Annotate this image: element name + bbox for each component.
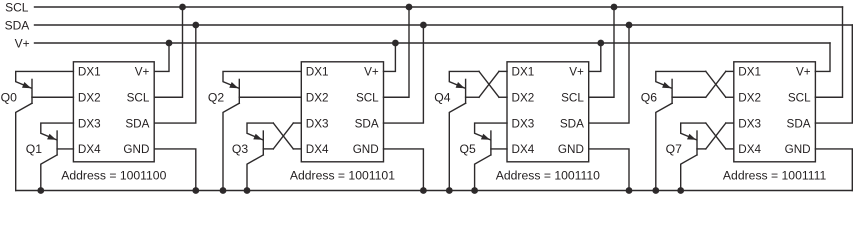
svg-text:DX1: DX1 [738, 66, 761, 79]
IC U3 [507, 62, 589, 162]
svg-text:DX1: DX1 [78, 66, 101, 79]
svg-text:Address = 1001101: Address = 1001101 [290, 169, 395, 183]
svg-text:Q5: Q5 [460, 142, 476, 156]
svg-text:SDA: SDA [355, 117, 379, 130]
IC U4 [734, 62, 816, 162]
wire SDA pin U1 [154, 25, 196, 123]
transistor Q0 [16, 71, 74, 190]
svg-text:DX4: DX4 [78, 143, 101, 156]
wire V+ bus rail [35, 42, 831, 44]
svg-text:SCL: SCL [788, 91, 811, 104]
svg-text:SCL: SCL [356, 91, 379, 104]
svg-text:DX2: DX2 [306, 91, 329, 104]
svg-text:GND: GND [353, 143, 379, 156]
svg-text:V+: V+ [135, 66, 150, 79]
svg-text:SDA: SDA [560, 117, 584, 130]
wire SCL pin U4 [815, 7, 842, 97]
svg-text:GND: GND [785, 143, 811, 156]
wire GND pin U4 [815, 149, 852, 191]
junction V+ U2 [392, 40, 399, 47]
svg-text:SDA: SDA [787, 117, 811, 130]
junction GND U2 [420, 187, 427, 194]
junction V+ U3 [597, 40, 604, 47]
svg-text:SDA: SDA [125, 117, 149, 130]
svg-text:DX4: DX4 [512, 143, 535, 156]
svg-text:DX4: DX4 [738, 143, 761, 156]
wire SDA pin U4 [815, 25, 852, 123]
junction GND U1 [192, 187, 199, 194]
junction SCL U2 [406, 4, 413, 11]
svg-text:Q0: Q0 [1, 91, 17, 105]
junction collector Q7 [677, 187, 684, 194]
svg-text:GND: GND [123, 143, 149, 156]
svg-text:DX2: DX2 [78, 91, 101, 104]
svg-text:V+: V+ [569, 66, 584, 79]
wire GND pin U3 [589, 149, 629, 191]
crossed wires at Q7 [706, 123, 734, 149]
wire SDA pin U3 [589, 25, 629, 123]
junction SDA U1 [192, 22, 199, 29]
wire V+ pin U1 [154, 43, 169, 71]
wire ground rail [16, 190, 853, 192]
svg-text:Q3: Q3 [232, 142, 248, 156]
wire SCL pin U1 [154, 7, 182, 97]
wire GND pin U1 [154, 149, 196, 191]
junction SDA U3 [626, 22, 633, 29]
svg-text:V+: V+ [796, 66, 811, 79]
junction collector Q2 [220, 187, 227, 194]
transistor Q3 [247, 123, 273, 190]
svg-text:Address = 1001110: Address = 1001110 [496, 169, 600, 183]
IC U1 [73, 62, 154, 162]
wire SCL bus rail [35, 6, 843, 8]
wire V+ pin U3 [589, 43, 601, 71]
svg-text:SCL: SCL [561, 91, 584, 104]
svg-text:Q1: Q1 [26, 142, 42, 156]
transistor Q5 [475, 123, 507, 190]
wire V+ pin U4 [815, 43, 830, 71]
svg-text:SCL: SCL [5, 0, 29, 14]
svg-text:DX2: DX2 [738, 91, 761, 104]
crossed wires at Q3 [273, 123, 301, 149]
svg-text:DX2: DX2 [512, 91, 535, 104]
svg-text:DX3: DX3 [738, 117, 761, 130]
svg-text:GND: GND [558, 143, 584, 156]
junction collector Q1 [37, 187, 44, 194]
svg-text:SCL: SCL [127, 91, 150, 104]
transistor Q4 [449, 71, 479, 190]
svg-text:DX3: DX3 [306, 117, 329, 130]
svg-text:Q4: Q4 [434, 91, 450, 105]
svg-text:DX3: DX3 [512, 117, 535, 130]
junction collector Q4 [446, 187, 453, 194]
svg-text:Q7: Q7 [666, 142, 682, 156]
svg-text:DX4: DX4 [306, 143, 329, 156]
svg-text:DX1: DX1 [512, 66, 535, 79]
svg-text:Q2: Q2 [208, 91, 224, 105]
wire SDA pin U2 [384, 25, 424, 123]
junction SCL U1 [179, 4, 186, 11]
transistor Q1 [41, 123, 74, 190]
wire GND pin U2 [384, 149, 424, 191]
wire SCL pin U2 [384, 7, 410, 97]
junction collector Q5 [471, 187, 478, 194]
IC U2 [301, 62, 383, 162]
junction GND U3 [626, 187, 633, 194]
junction V+ U1 [166, 40, 173, 47]
crossed wires at Q6 [706, 71, 734, 97]
svg-text:V+: V+ [15, 36, 30, 50]
wire V+ pin U2 [384, 43, 396, 71]
svg-text:DX3: DX3 [78, 117, 101, 130]
svg-text:Address = 1001100: Address = 1001100 [61, 169, 166, 183]
transistor Q2 [223, 71, 301, 190]
svg-text:SDA: SDA [5, 18, 30, 32]
wire SDA bus rail [35, 24, 853, 26]
junction SCL U3 [611, 4, 618, 11]
junction collector Q6 [652, 187, 659, 194]
wire SCL pin U3 [589, 7, 614, 97]
transistor Q7 [681, 123, 706, 190]
crossed wires at Q4 [479, 71, 507, 97]
svg-text:Address = 1001111: Address = 1001111 [723, 169, 827, 183]
junction collector Q3 [244, 187, 251, 194]
svg-text:Q6: Q6 [641, 91, 657, 105]
svg-text:V+: V+ [364, 66, 379, 79]
junction SDA U2 [420, 22, 427, 29]
transistor Q6 [656, 71, 706, 190]
svg-text:DX1: DX1 [306, 66, 329, 79]
